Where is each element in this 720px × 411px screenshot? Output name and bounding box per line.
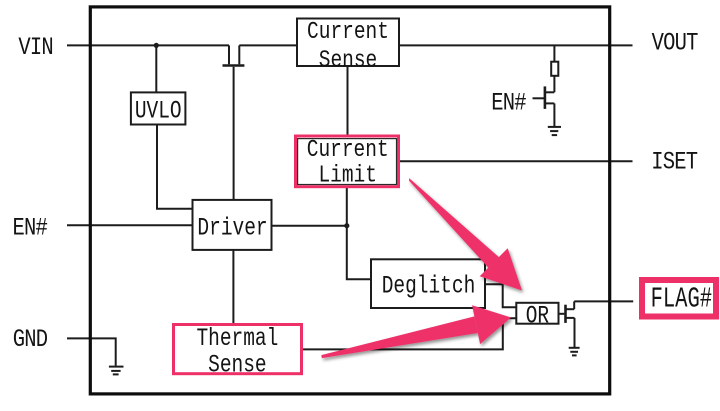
svg-text:Current: Current	[307, 136, 389, 163]
svg-text:UVLO: UVLO	[135, 97, 182, 126]
svg-text:ISET: ISET	[651, 148, 697, 176]
svg-text:Sense: Sense	[319, 47, 378, 74]
svg-text:VIN: VIN	[18, 33, 53, 61]
svg-text:OR: OR	[526, 302, 549, 331]
svg-text:Thermal: Thermal	[196, 324, 278, 353]
svg-text:Driver: Driver	[197, 213, 267, 242]
svg-text:Deglitch: Deglitch	[382, 272, 476, 301]
svg-text:FLAG#: FLAG#	[651, 284, 713, 316]
svg-text:EN#: EN#	[491, 89, 526, 117]
svg-text:EN#: EN#	[12, 214, 47, 242]
svg-text:GND: GND	[13, 325, 48, 353]
svg-text:Current: Current	[307, 18, 389, 45]
svg-text:VOUT: VOUT	[652, 29, 698, 57]
svg-text:Limit: Limit	[318, 162, 377, 189]
svg-text:Sense: Sense	[208, 351, 266, 380]
